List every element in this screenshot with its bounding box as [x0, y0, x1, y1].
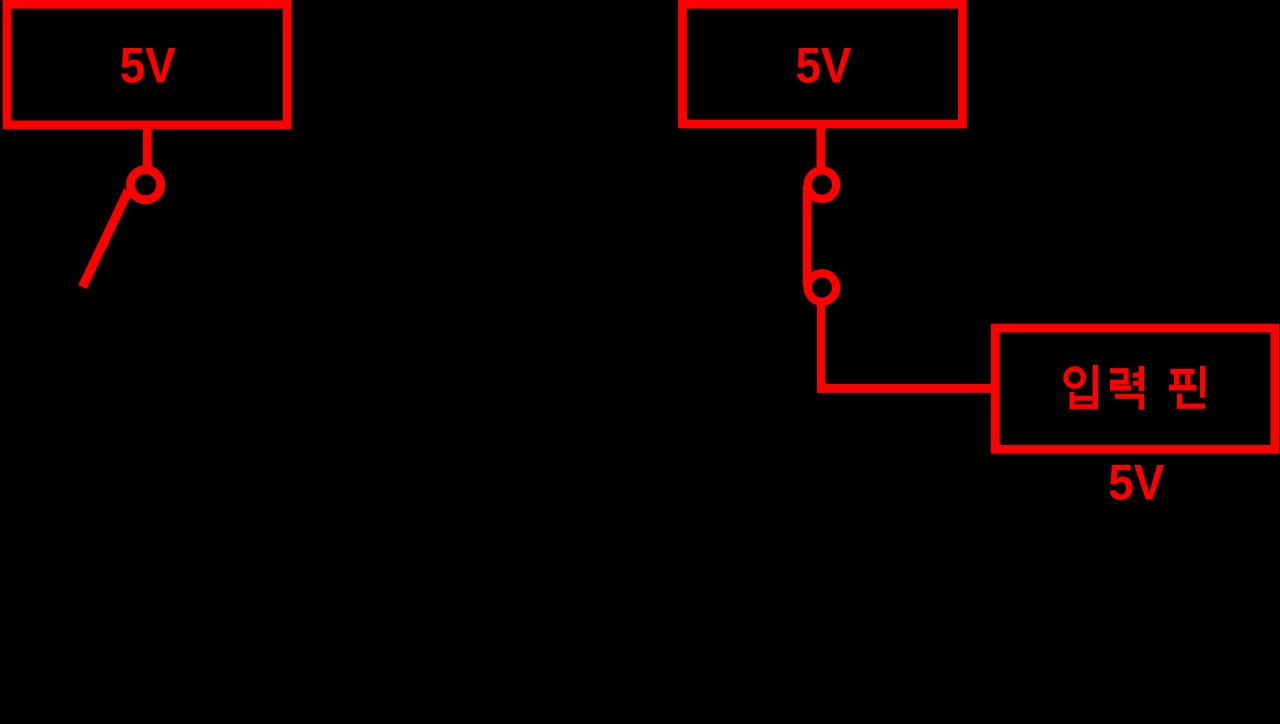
switch SW1 lever (open)	[83, 191, 129, 288]
switch SW2 terminal B	[808, 273, 836, 301]
hangul 핀 : jamo ㅍ right leg	[1185, 374, 1191, 384]
hangul 핀 : jamo ㅣ vertical bar	[1200, 366, 1205, 398]
wire (corner to input pin box)	[817, 384, 996, 393]
svg-text:5V: 5V	[796, 37, 852, 94]
wire (left box to switch SW1)	[143, 122, 152, 171]
hangul 력 : jamo ㅕ tick 1	[1133, 373, 1141, 378]
label 입력 핀 (input pin, hand-drawn hangul)	[1066, 365, 1205, 410]
power source box 5V (middle)	[683, 4, 963, 124]
hangul 입 : jamo ㅣ vertical bar	[1093, 365, 1098, 409]
hangul 력 : jamo ㅕ vertical bar	[1139, 366, 1144, 391]
hangul 핀 : jamo ㄴ	[1180, 394, 1206, 407]
input pin box	[995, 328, 1275, 449]
hangul 력 : jamo ㄱ	[1115, 396, 1142, 410]
hangul 력 : jamo ㄹ	[1110, 371, 1131, 388]
switch SW1 pivot terminal	[131, 170, 161, 200]
power source box 5V (left)	[7, 4, 287, 125]
wire (middle box to switch SW2)	[817, 122, 826, 171]
switch SW2 terminal A	[808, 171, 836, 199]
svg-text:5V: 5V	[120, 37, 176, 94]
hangul 핀 : jamo ㅍ top bar	[1170, 369, 1194, 374]
hangul 입 : jamo ㅇ ring	[1066, 369, 1083, 386]
wire (switch SW2 down)	[817, 300, 825, 393]
switch SW2 lever (closed)	[803, 185, 812, 287]
hangul 핀 : jamo ㅍ bottom bar	[1169, 385, 1196, 391]
hangul 력 : jamo ㅕ tick 2	[1133, 381, 1141, 386]
hangul 입 : jamo ㅂ	[1072, 392, 1095, 407]
svg-text:5V: 5V	[1108, 454, 1164, 511]
hangul 핀 : jamo ㅍ left leg	[1174, 374, 1180, 384]
